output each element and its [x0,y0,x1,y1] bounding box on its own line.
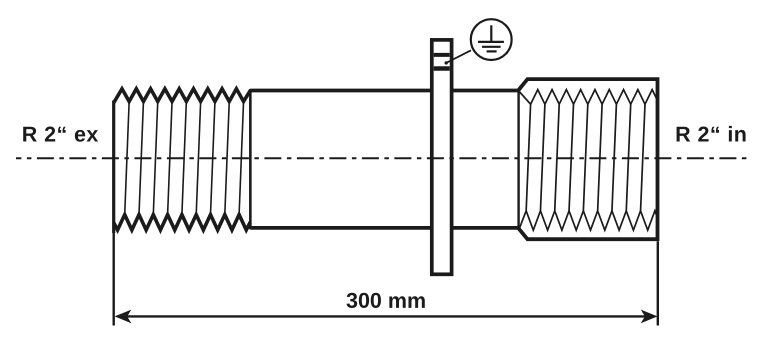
right internal thread R 2 in [519,90,657,231]
svg-text:R 2“ ex: R 2“ ex [22,123,99,147]
left external thread R 2 ex [114,89,251,233]
centreline axis [16,157,751,159]
svg-text:300 mm: 300 mm [346,289,426,313]
thread end step line [249,89,252,229]
pipe body outline [250,91,518,228]
svg-text:R 2“ in: R 2“ in [675,123,747,147]
leader line to earth symbol [445,50,472,64]
right coupling outline [519,79,658,239]
dimension line 300 mm [114,233,658,326]
protective earth symbol circle [471,19,512,60]
earthing tab flange [432,40,452,274]
